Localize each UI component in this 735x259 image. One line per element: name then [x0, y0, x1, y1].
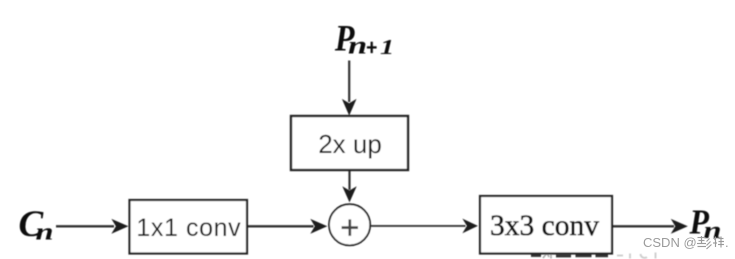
svg-text:.: . — [725, 235, 729, 250]
svg-text:n: n — [36, 219, 54, 245]
svg-text:CSDN @: CSDN @ — [643, 235, 697, 250]
svg-text:2x up: 2x up — [318, 129, 382, 159]
svg-text:1: 1 — [380, 37, 394, 60]
svg-text:n: n — [348, 31, 367, 60]
svg-text:1x1 conv: 1x1 conv — [136, 214, 241, 242]
svg-text:n: n — [704, 218, 722, 244]
svg-text:3x3 conv: 3x3 conv — [490, 210, 599, 242]
